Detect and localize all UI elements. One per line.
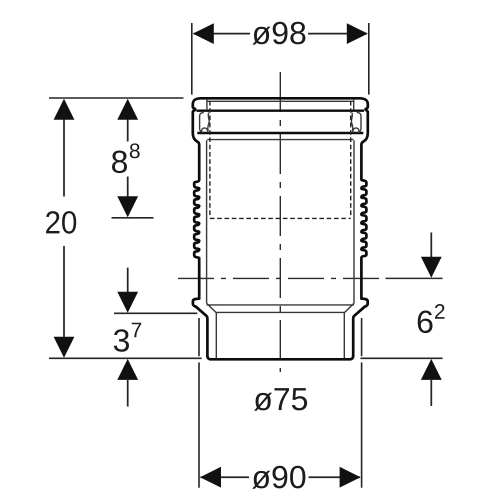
seal ring arc right: [353, 128, 360, 133]
rim short vertical left: [206, 100, 208, 111]
inner flare diagonal left: [207, 303, 217, 313]
dim o98 line right segment: [308, 33, 367, 35]
seal lip s-curve right: [351, 113, 352, 131]
dim o98 text: [252, 22, 305, 45]
dim o90 line right segment: [309, 476, 361, 478]
insertion-depth reference line y218: [112, 217, 154, 219]
dim o98 line left segment: [194, 33, 251, 35]
inner wall thin line left: [206, 140, 208, 303]
dim 6.2 arrow down: [421, 257, 442, 278]
seal lip s-curve left: [208, 113, 209, 131]
horizontal center line right solid segment: [386, 277, 443, 279]
bottom-left reference line y358: [49, 357, 202, 359]
dim 20 line lower segment: [63, 246, 65, 337]
dim 3.7 arrow-down tail: [127, 268, 129, 292]
dim 6.2 text: [418, 311, 433, 334]
dim 6.2 arrow-down tail: [430, 233, 432, 258]
seal ring arc left: [201, 128, 208, 133]
dim o90 extension line right: [361, 318, 363, 356]
inner flare diagonal right: [344, 303, 354, 313]
dim 8.8 arrow up: [117, 99, 138, 120]
hidden bore dashed line left: [209, 101, 211, 218]
seal groove left: [200, 112, 204, 132]
dim 6.2 arrow up: [421, 359, 442, 380]
hidden bore bottom dashed line: [210, 217, 351, 219]
dim 6.2 arrow-up tail: [430, 380, 432, 406]
socket step thin line y312.4: [216, 311, 344, 313]
dim 3.7 arrow-up tail: [127, 380, 129, 407]
hidden bore dashed line right: [350, 101, 352, 218]
dim 8.8 text: [112, 151, 127, 174]
rim short vertical right: [353, 100, 355, 111]
horizontal center line: [178, 277, 384, 279]
dim 8.8 arrow down: [117, 196, 138, 217]
dim 8.8 line lower segment: [127, 177, 129, 198]
vertical center line: [279, 72, 281, 372]
rim top inner thin line y101.2: [207, 100, 354, 102]
dim 20 line upper segment: [63, 119, 65, 196]
dim o98 arrow left: [193, 23, 214, 44]
bottom-right reference line y358: [360, 357, 442, 359]
rim groove bottom thick line y133: [197, 132, 363, 134]
top reference line y98: [49, 97, 184, 99]
socket shoulder thin line y304.9: [207, 304, 354, 306]
dim 20 arrow down: [54, 337, 75, 358]
dim o98 extension line right: [368, 23, 370, 95]
inner wall thin line right: [353, 140, 355, 303]
skirt inner wall left: [215, 313, 217, 358]
dim 3.7 arrow up: [117, 359, 138, 380]
sleeve outer contour: [193, 98, 368, 359]
dim o90 extension line left: [198, 318, 200, 356]
dim o90 arrow right: [340, 467, 361, 488]
dim o90 arrow left: [200, 467, 221, 488]
dim o90 text: [252, 466, 305, 489]
skirt inner wall right: [343, 313, 345, 358]
dim 8.8 line upper segment: [127, 119, 129, 141]
rim inner step thin line y139.6: [207, 139, 353, 141]
dim 20 arrow up: [54, 99, 75, 120]
dim o98 arrow right: [347, 23, 368, 44]
dim 3.7 text: [114, 329, 129, 352]
seal groove right: [357, 112, 361, 132]
dim 20 text: [46, 211, 76, 234]
socket reference line y313: [114, 312, 197, 314]
rim shoulder thick line y110.7: [197, 109, 365, 111]
dim o90 line left segment: [201, 476, 250, 478]
dim o98 extension line left: [191, 23, 193, 95]
dim 3.7 arrow down: [117, 292, 138, 313]
label o75 text: [254, 388, 307, 411]
